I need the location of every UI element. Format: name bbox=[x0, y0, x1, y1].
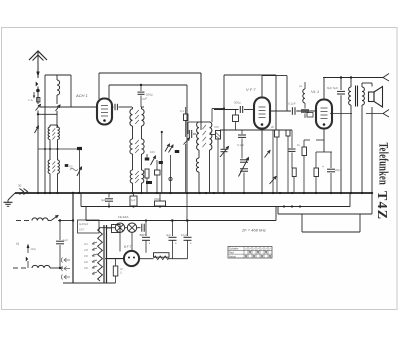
svg-text:2F = 468 kHz: 2F = 468 kHz bbox=[241, 228, 266, 233]
svg-text:4μF/3μF: 4μF/3μF bbox=[79, 223, 89, 226]
svg-text:T4Z: T4Z bbox=[374, 191, 389, 220]
svg-text:μμF: μμF bbox=[142, 97, 147, 101]
svg-text:0,1μF: 0,1μF bbox=[288, 102, 296, 106]
svg-text:ca: ca bbox=[299, 84, 302, 88]
svg-text:+: + bbox=[322, 165, 324, 169]
svg-text:8 F 7: 8 F 7 bbox=[124, 245, 131, 249]
svg-text:ACH 1: ACH 1 bbox=[75, 93, 88, 98]
svg-text:0,97: 0,97 bbox=[79, 229, 84, 232]
svg-text:+: + bbox=[149, 242, 151, 246]
svg-text:4μF: 4μF bbox=[166, 233, 171, 237]
svg-text:Hebel: Hebel bbox=[229, 254, 236, 258]
svg-text:+: + bbox=[175, 242, 177, 246]
svg-text:FE EZA: FE EZA bbox=[118, 215, 129, 219]
svg-text:Schalter: Schalter bbox=[229, 247, 239, 251]
svg-text:0,1μF: 0,1μF bbox=[237, 143, 244, 147]
svg-text:470: 470 bbox=[214, 125, 219, 129]
svg-text:Rad: Rad bbox=[229, 251, 234, 255]
svg-text:220μ: 220μ bbox=[31, 248, 37, 251]
svg-text:10μF: 10μF bbox=[181, 233, 188, 237]
svg-text:4μF: 4μF bbox=[140, 233, 145, 237]
svg-text:100: 100 bbox=[150, 150, 155, 154]
svg-text:1μF: 1μF bbox=[131, 199, 136, 202]
svg-text:8μF: 8μF bbox=[327, 86, 332, 90]
svg-text:240: 240 bbox=[84, 267, 89, 270]
svg-text:125: 125 bbox=[84, 249, 89, 252]
svg-text:6μF: 6μF bbox=[333, 86, 338, 90]
svg-text:110: 110 bbox=[84, 243, 88, 246]
svg-text:0,1: 0,1 bbox=[180, 109, 184, 113]
svg-text:L A: L A bbox=[29, 98, 33, 102]
svg-text:Ω: Ω bbox=[120, 272, 122, 275]
svg-text:1μF: 1μF bbox=[63, 238, 68, 242]
svg-text:V F 7: V F 7 bbox=[246, 87, 256, 92]
svg-text:150: 150 bbox=[84, 255, 89, 258]
svg-text:24μF: 24μF bbox=[335, 168, 342, 172]
svg-text:500μ: 500μ bbox=[234, 101, 241, 105]
svg-text:VL 1: VL 1 bbox=[311, 89, 319, 94]
svg-text:4μF: 4μF bbox=[101, 198, 106, 202]
svg-text:+: + bbox=[190, 242, 192, 246]
svg-text:220: 220 bbox=[84, 261, 89, 264]
svg-text:Telefunken: Telefunken bbox=[376, 143, 390, 185]
svg-text:30: 30 bbox=[18, 184, 22, 188]
